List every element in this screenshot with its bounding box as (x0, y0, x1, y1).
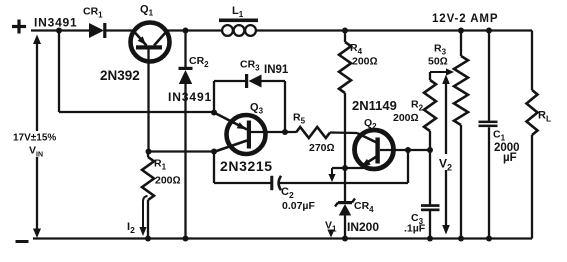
node R4 top junction (342, 28, 348, 34)
label IN3491 (CR2 part number) (168, 90, 212, 104)
diode CR2 (freewheeling, IN3491) (179, 67, 193, 84)
annotation arrow V1 upper (328, 168, 335, 182)
label C1 (493, 129, 506, 143)
wire emitter node to CR4 (344, 168, 346, 202)
svg-text:IN91: IN91 (264, 64, 289, 76)
label CR1 (83, 6, 103, 20)
node R3 top junction (458, 28, 464, 34)
label 2N392 (100, 68, 140, 83)
annotation arrow Vin (input voltage, double-headed) (33, 35, 41, 239)
label .1uF (404, 223, 426, 235)
wire Q1 base down (147, 50, 149, 152)
label C2 (281, 186, 294, 200)
wire Q2 base to R2 (380, 149, 430, 151)
label 200 ohm (R2) (393, 112, 419, 124)
label V2 (438, 154, 457, 173)
label C3 (411, 212, 424, 226)
label IN3491 (CR1 part number) (34, 16, 78, 30)
resistor R5 (270 ohm) (296, 127, 330, 138)
wire CR2 anode to ground (184, 84, 186, 239)
svg-text:50Ω: 50Ω (428, 56, 448, 68)
node CR2 ground junction (183, 236, 189, 242)
capacitor C1 (2000uF) (479, 31, 498, 239)
wire input tap down (58, 31, 60, 113)
inductor L1 (219, 19, 258, 36)
label 12V-2 AMP (432, 13, 498, 25)
label Q3 (250, 102, 264, 116)
svg-text:200Ω: 200Ω (352, 56, 378, 68)
svg-text:2N1149: 2N1149 (352, 98, 397, 113)
label CR4 (354, 200, 374, 214)
label IN91 (264, 64, 289, 76)
wire C2 to Q2 base loop (280, 150, 409, 183)
svg-text:IN3491: IN3491 (168, 90, 212, 104)
wire CR4 anode to ground (344, 215, 346, 239)
label R1 (154, 158, 167, 172)
label VIN (29, 145, 43, 159)
resistor R2 (200 ohm) (424, 72, 436, 150)
annotation arrow V2 (double-headed) (442, 75, 450, 235)
node Q2 emitter junction (R4 / CR4) (342, 165, 348, 171)
label 200 ohm (R4) (352, 56, 378, 68)
svg-text:12V-2 AMP: 12V-2 AMP (432, 13, 498, 25)
potentiometer R3 (50 ohm) (454, 31, 468, 239)
wire CR3 cathode to emitter node (214, 81, 246, 112)
wire R4 bottom to emitter node (344, 93, 346, 168)
resistor RL (load) (527, 31, 538, 239)
label 0.07uF (282, 200, 315, 212)
node C1 ground junction (486, 236, 492, 242)
capacitor C2 (0.07uF) (270, 176, 281, 190)
label RL (538, 110, 551, 124)
node switch node (Q1 collector / L1 / CR2) (183, 28, 189, 34)
svg-text:200Ω: 200Ω (393, 112, 419, 124)
node R1 ground junction (145, 236, 151, 242)
label 2N3215 (220, 158, 273, 174)
diode CR3 (IN91) (245, 74, 262, 88)
node R3 ground junction (458, 236, 464, 242)
node Q1 base junction (R1 top) (146, 149, 152, 155)
resistor R4 (200 ohm) (339, 31, 351, 94)
svg-text:200Ω: 200Ω (155, 175, 181, 187)
transistor Q1 (2N392 PNP pass switch) (131, 23, 170, 62)
wire CR1 to Q1 emitter (106, 29, 135, 31)
wiper arrow of R3 (430, 68, 454, 75)
label R3 (434, 43, 447, 57)
wire Q2 emitter to CR4 node (332, 167, 364, 169)
node CR4 ground junction (342, 236, 348, 242)
wire input tap to Q3 emitter (59, 111, 214, 113)
annotation arrow V1 lower (327, 230, 334, 238)
label R2 (411, 99, 424, 113)
label CR3 (240, 59, 260, 73)
zener diode CR4 (IN200) (335, 199, 355, 216)
transistor Q3 (2N3215 PNP driver) (214, 113, 266, 155)
svg-text:2N392: 2N392 (100, 68, 140, 83)
node Q3 base junction (282, 129, 288, 135)
wire ground rail (33, 237, 532, 239)
svg-text:µF: µF (503, 152, 517, 164)
label V1 (325, 220, 337, 234)
node R2 bottom junction (base / C3) (427, 147, 433, 153)
node C1 top junction (486, 28, 492, 34)
svg-text:IN200: IN200 (347, 220, 379, 234)
label R5 (293, 112, 306, 126)
label uF (C1) (503, 152, 517, 164)
node Q3 emitter junction (211, 110, 217, 116)
label CR2 (189, 55, 209, 69)
node Q3 collector junction (211, 149, 217, 155)
label 50 ohm (R3) (428, 56, 448, 68)
wire Q3 base to R5 (251, 131, 296, 133)
transistor Q2 (2N1149 NPN error amplifier) (355, 130, 394, 169)
svg-text:0.07µF: 0.07µF (282, 200, 315, 212)
diode CR1 (89, 23, 106, 38)
label R4 (350, 42, 363, 56)
wire L1 to output corner (256, 29, 532, 31)
label IN200 (347, 220, 379, 234)
wire Q3 collector to C2 (214, 152, 272, 184)
label I2 (127, 221, 135, 235)
label 270 ohm (R5) (309, 142, 335, 154)
wire Q1 collector to L1 (166, 29, 222, 31)
svg-text:2N3215: 2N3215 (220, 158, 273, 174)
resistor R1 (200 ohm) (142, 152, 154, 239)
wire top input rail segment (+ to CR1) (31, 29, 90, 31)
capacitor C3 (.1uF) (421, 150, 440, 239)
node input junction (Vin sense tap) (56, 28, 62, 34)
label 200 ohm (R1) (155, 175, 181, 187)
label Q1 (140, 4, 154, 18)
label 2000 (494, 142, 520, 154)
svg-text:.1µF: .1µF (404, 223, 426, 235)
wire R5 to Q2 collector (330, 131, 357, 134)
wire Q1 base node to Q3 collector (149, 150, 216, 152)
svg-text:270Ω: 270Ω (309, 142, 335, 154)
node Q2 base junction (405, 147, 411, 153)
label L1 (232, 5, 244, 19)
annotation arrow I2 (current through R1) (139, 196, 147, 236)
wire switch node to CR2 (184, 31, 186, 69)
label 2N1149 (352, 98, 397, 113)
label Q2 (364, 117, 377, 131)
terminal plus (+ input) (12, 20, 26, 34)
svg-text:IN3491: IN3491 (34, 16, 78, 30)
terminal minus (- input) (16, 240, 29, 243)
wire CR3 anode to Q3 base node (261, 81, 285, 132)
label 17V±15% (13, 133, 56, 144)
node C3 ground junction (427, 236, 433, 242)
svg-text:17V±15%: 17V±15% (13, 133, 56, 144)
